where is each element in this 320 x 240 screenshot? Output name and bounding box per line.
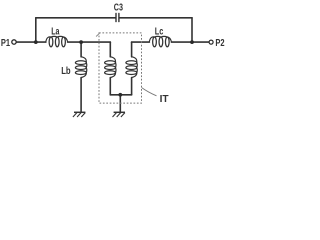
svg-text:Lb: Lb [61, 65, 70, 77]
svg-text:IT: IT [160, 93, 170, 105]
svg-text:P2: P2 [215, 37, 224, 49]
svg-text:Lc: Lc [155, 26, 164, 38]
svg-text:La: La [51, 26, 59, 38]
svg-text:C3: C3 [114, 1, 123, 13]
svg-text:P1: P1 [1, 37, 10, 49]
